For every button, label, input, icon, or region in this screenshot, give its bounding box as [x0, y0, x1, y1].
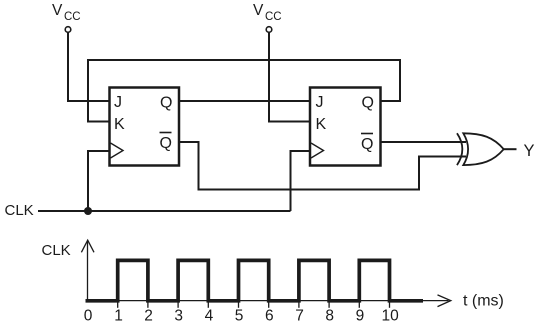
svg-text:6: 6 [265, 308, 274, 325]
wire CLK to U2 clock [291, 151, 312, 211]
svg-text:2: 2 [144, 308, 153, 325]
junction dot CLK node [84, 207, 92, 215]
time axis tick t=10 [389, 301, 391, 308]
svg-text:J: J [316, 94, 324, 111]
svg-text:t (ms): t (ms) [463, 293, 504, 310]
waveform vertical axis [87, 241, 89, 301]
svg-text:CC: CC [64, 11, 81, 23]
svg-text:V: V [253, 2, 264, 19]
time axis tick t=2 [147, 301, 149, 308]
svg-text:Y: Y [524, 142, 535, 160]
flip-flop U1 box [110, 88, 180, 166]
svg-text:Q: Q [361, 136, 373, 153]
time axis tick t=5 [238, 301, 240, 308]
xor gate U3 [457, 133, 462, 165]
wire U1 Qbar to XOR input B [179, 142, 466, 190]
svg-text:9: 9 [356, 308, 365, 325]
time axis tick t=1 [117, 301, 119, 308]
svg-text:Q: Q [160, 95, 172, 112]
svg-text:5: 5 [235, 308, 244, 325]
svg-text:K: K [114, 116, 125, 133]
wire U1 Q to U2 J [179, 100, 310, 102]
power Vcc2 terminal [266, 27, 272, 33]
svg-text:J: J [114, 94, 122, 111]
svg-text:0: 0 [84, 308, 93, 325]
svg-text:1: 1 [114, 308, 123, 325]
svg-text:CLK: CLK [5, 202, 34, 219]
wire XOR output [504, 148, 517, 150]
svg-text:V: V [52, 2, 63, 19]
svg-text:3: 3 [174, 308, 183, 325]
time axis tick t=9 [358, 301, 360, 308]
svg-text:10: 10 [381, 308, 399, 325]
svg-text:CLK: CLK [42, 242, 71, 259]
time axis tick t=7 [298, 301, 300, 308]
svg-text:Q: Q [160, 135, 172, 152]
waveform time axis [88, 300, 449, 302]
time axis tick t=6 [268, 301, 270, 308]
power Vcc1 terminal [65, 27, 71, 33]
wire U2 Qbar to XOR input A [381, 141, 467, 143]
wire CLK bus [38, 210, 291, 212]
flip-flop U2 box [310, 88, 381, 166]
time axis tick t=3 [177, 301, 179, 308]
time axis tick t=4 [207, 301, 209, 308]
svg-text:8: 8 [325, 308, 334, 325]
wire Vcc2 to U2 pin K [269, 33, 311, 122]
time axis tick t=8 [328, 301, 330, 308]
wire Vcc1 to U1 pin J [68, 33, 110, 102]
CLK waveform trace [86, 260, 424, 300]
svg-text:7: 7 [295, 308, 304, 325]
U2 clock triangle [311, 143, 324, 158]
svg-text:K: K [316, 116, 327, 133]
svg-text:Q: Q [362, 95, 374, 112]
U1 clock triangle [111, 143, 124, 158]
wire CLK to U1 clock [88, 151, 110, 211]
svg-text:CC: CC [265, 11, 282, 23]
svg-text:4: 4 [205, 308, 214, 325]
wire U2 Q feedback to U1 K [88, 60, 400, 122]
